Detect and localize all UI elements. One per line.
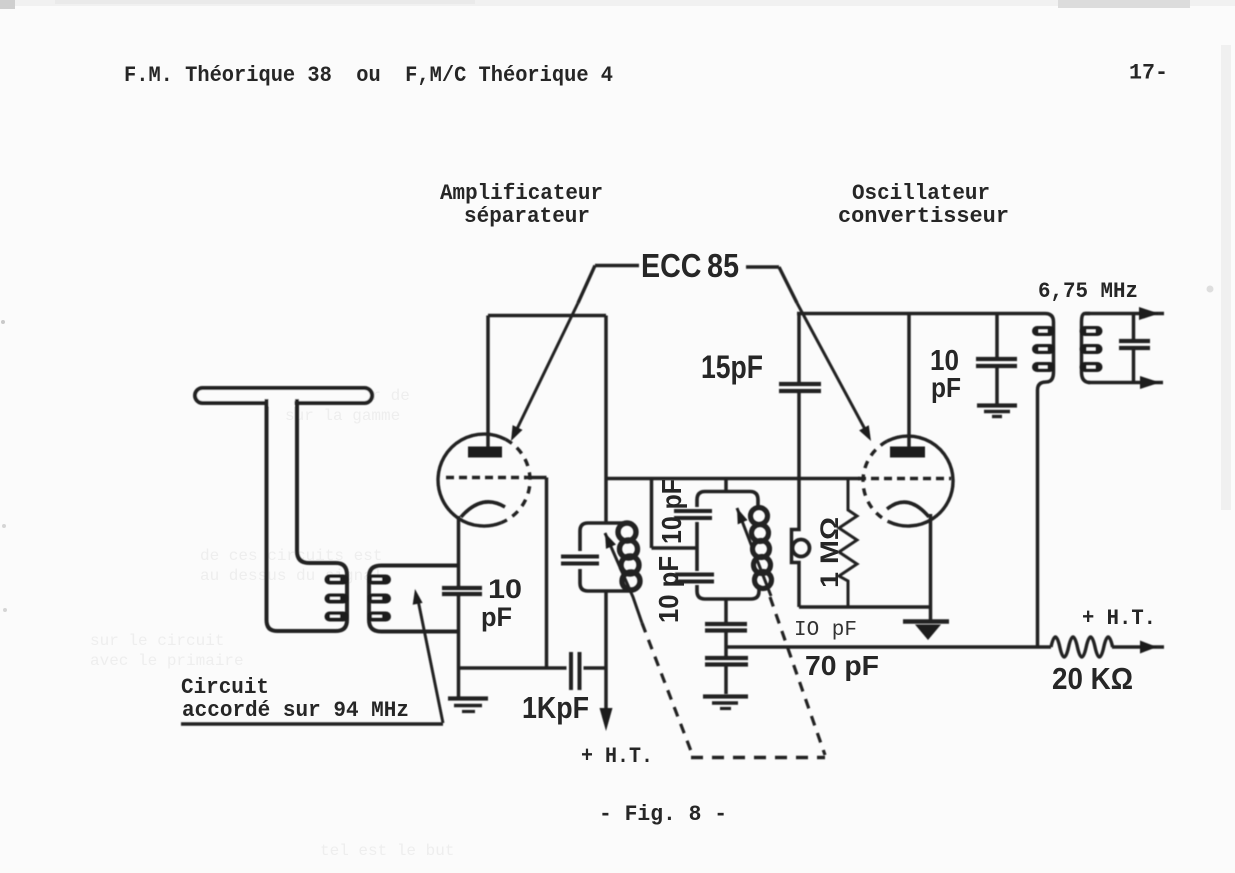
svg-text:1 MΩ: 1 MΩ — [816, 517, 844, 588]
svg-text:10 pF: 10 pF — [656, 479, 687, 544]
svg-text:convertisseur: convertisseur — [838, 204, 1009, 229]
svg-text:de ces circuits est: de ces circuits est — [200, 547, 382, 565]
svg-text:+ H.T.: + H.T. — [1082, 606, 1156, 631]
svg-text:+ H.T.: + H.T. — [581, 744, 653, 769]
svg-text:pF: pF — [481, 602, 512, 632]
svg-text:IO pF: IO pF — [794, 619, 857, 642]
svg-text:pF: pF — [931, 372, 961, 403]
svg-text:70 pF: 70 pF — [805, 650, 879, 681]
svg-text:accordé sur 94 MHz: accordé sur 94 MHz — [182, 698, 409, 723]
svg-text:10 pF: 10 pF — [653, 556, 684, 623]
svg-text:Oscillateur: Oscillateur — [852, 181, 990, 206]
svg-text:sur la gamme: sur la gamme — [285, 407, 400, 425]
svg-text:20 KΩ: 20 KΩ — [1052, 661, 1133, 696]
svg-text:tel est le but: tel est le but — [320, 842, 454, 860]
svg-text:sur le circuit: sur le circuit — [90, 632, 224, 650]
svg-text:- Fig. 8 -: - Fig. 8 - — [599, 802, 727, 827]
svg-text:Amplificateur: Amplificateur — [440, 181, 603, 206]
svg-text:avec le primaire: avec le primaire — [90, 652, 244, 670]
svg-text:séparateur: séparateur — [464, 204, 590, 229]
svg-text:17-: 17- — [1129, 61, 1168, 86]
svg-text:6,75 MHz: 6,75 MHz — [1038, 279, 1138, 304]
svg-text:F.M. Théorique 38 ou F,M/C T: F.M. Théorique 38 ou F,M/C Théorique 4 — [124, 63, 613, 88]
svg-text:1KpF: 1KpF — [522, 690, 589, 725]
svg-text:au dessus du signal: au dessus du signal — [200, 567, 382, 585]
svg-text:15pF: 15pF — [701, 349, 763, 385]
svg-text:Circuit: Circuit — [181, 675, 269, 700]
svg-text:10: 10 — [488, 574, 522, 604]
svg-text:ECC 85: ECC 85 — [641, 247, 739, 284]
